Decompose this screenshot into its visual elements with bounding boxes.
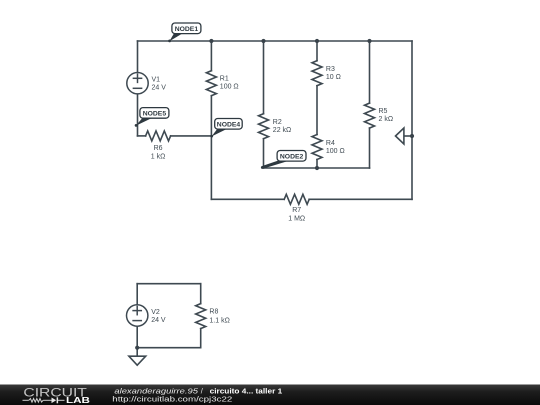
svg-text:1.1 kΩ: 1.1 kΩ [209,318,229,325]
svg-text:NODE2: NODE2 [280,154,304,161]
resistor R5 [365,103,375,128]
resistor R3 [312,61,322,86]
wire R8 bottom lead [200,329,202,348]
wire R4 bottom lead [316,160,318,169]
wire R2 bottom lead to NODE2 rail [263,139,265,168]
node NODE1 [168,23,201,42]
svg-text:V2: V2 [151,309,160,316]
wire V2 top lead [136,284,138,305]
node NODE4 [210,119,242,138]
junction top rail R1 [209,39,213,43]
wire R6 to NODE4 junction [171,135,212,137]
svg-text:NODE5: NODE5 [143,111,167,118]
wire V2 top rail [137,283,201,285]
voltage source V2 [127,305,148,326]
wire R2 top lead [263,41,265,114]
wire R3 top lead [316,41,318,61]
svg-text:R1: R1 [220,76,229,83]
svg-text:NODE4: NODE4 [217,122,241,129]
svg-text:R3: R3 [326,66,335,73]
resistor R1 [206,71,216,96]
wire NODE2 rail [264,167,370,169]
svg-text:R6: R6 [154,145,163,152]
footer logo wire with resistor and diode [23,399,65,403]
node NODE2 [261,151,306,169]
svg-text:V1: V1 [152,77,161,84]
wire R5 top lead [369,41,371,103]
probe arrow on right branch [404,135,412,137]
svg-text:100 Ω: 100 Ω [326,148,345,155]
junction R4 bottom on NODE2 rail [315,166,319,170]
svg-text:100 Ω: 100 Ω [220,83,239,90]
svg-text:1 MΩ: 1 MΩ [288,216,305,223]
svg-text:2 kΩ: 2 kΩ [379,116,394,123]
svg-text:R5: R5 [379,108,388,115]
resistor R4 [312,135,322,160]
resistor R2 [259,114,269,139]
junction top rail R2 [261,39,265,43]
ground [136,348,138,357]
resistor R6 [146,131,171,141]
svg-text:R2: R2 [273,119,282,126]
svg-text:1 kΩ: 1 kΩ [151,153,166,160]
junction probe arrow [410,134,414,138]
wire left branch V1 top lead [137,41,139,73]
wire R5 bottom lead [369,128,371,168]
wire R1 top lead [210,41,212,71]
wire lower rail left of R7 [211,198,284,200]
junction ground on V2 rail [135,346,139,350]
svg-text:22 kΩ: 22 kΩ [273,127,291,134]
svg-text:10 Ω: 10 Ω [326,74,341,81]
wire top rail NODE1 [138,40,413,42]
resistor R8 [196,304,206,329]
wire lower rail right of R7 [309,198,412,200]
svg-text:http://circuitlab.com/cpj3c22: http://circuitlab.com/cpj3c22 [112,394,232,403]
svg-text:R8: R8 [209,309,218,316]
voltage source V1 [127,73,148,94]
wire R3 to R4 [316,86,318,135]
svg-text:LAB: LAB [66,395,90,405]
node name flags [135,23,306,169]
wire R8 top lead [200,284,202,304]
svg-text:NODE1: NODE1 [175,26,199,33]
wire R1 bottom lead down to lower rail [210,96,212,200]
wire V1 bottom lead to corner [137,94,139,136]
wire R6 horizontal segment left [138,135,146,137]
node NODE5 [135,108,169,127]
wire V2 bottom rail [137,347,201,349]
svg-text:R7: R7 [292,207,301,214]
svg-text:24 V: 24 V [151,317,166,324]
wire V2 bottom lead [136,326,138,348]
svg-text:R4: R4 [326,140,335,147]
junction top rail R5 [367,39,371,43]
resistor R7 [284,194,309,204]
wire right vertical branch [411,41,413,199]
svg-text:24 V: 24 V [152,85,167,92]
junction top rail R3 [315,39,319,43]
